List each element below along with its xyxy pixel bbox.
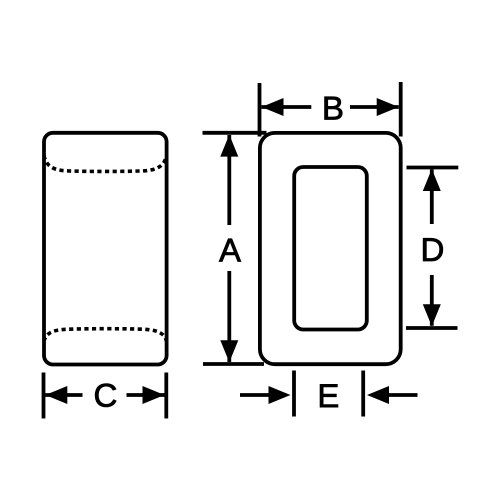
- dimension C line right segment: [127, 393, 165, 397]
- dimension D arrowhead top: [423, 169, 441, 191]
- dimension E arrowhead right (pointing left): [367, 386, 389, 404]
- dimension B arrowhead left: [262, 98, 284, 116]
- dimension E leader line left: [240, 393, 270, 397]
- dimension B arrowhead right: [377, 98, 399, 116]
- dimension B line right segment: [350, 105, 399, 109]
- front view inner hole: [294, 167, 367, 330]
- dimension C line left segment: [45, 393, 82, 397]
- front view outer body: [260, 133, 401, 364]
- dimension E leader line right: [387, 393, 418, 397]
- side view body: [44, 133, 167, 365]
- dimension C extension line left: [42, 373, 46, 419]
- dimension A extension line top: [203, 131, 267, 135]
- dimension B extension line right: [399, 82, 403, 137]
- dimension B extension line left: [258, 83, 262, 137]
- dimension E arrowhead left (pointing right): [269, 386, 291, 404]
- dimension D arrowhead bottom: [423, 304, 441, 326]
- dimension D extension line top: [407, 166, 459, 170]
- dimension C arrowhead left: [45, 386, 67, 404]
- dimension B line left segment: [262, 105, 312, 109]
- dimension E extension line right: [361, 371, 365, 417]
- dimension A line bottom segment: [227, 271, 231, 362]
- label E: [320, 384, 338, 407]
- dimension C extension line right: [164, 373, 168, 419]
- dimension A arrowhead top: [220, 135, 238, 157]
- hidden inner edge bottom (dashed): [44, 329, 167, 342]
- label B: [325, 97, 343, 120]
- dimension A extension line bottom: [203, 362, 264, 366]
- dimension E extension line left: [292, 371, 296, 417]
- dimension D line top segment: [430, 170, 434, 225]
- dimension D extension line bottom: [406, 326, 458, 330]
- label D: [423, 238, 443, 261]
- hidden inner edge top (dashed): [44, 156, 167, 172]
- label A: [219, 239, 241, 262]
- label C: [95, 384, 116, 407]
- dimension C arrowhead right: [143, 386, 165, 404]
- dimension D line bottom segment: [430, 275, 434, 326]
- dimension A arrowhead bottom: [220, 340, 238, 362]
- dimension A line top segment: [227, 135, 231, 225]
